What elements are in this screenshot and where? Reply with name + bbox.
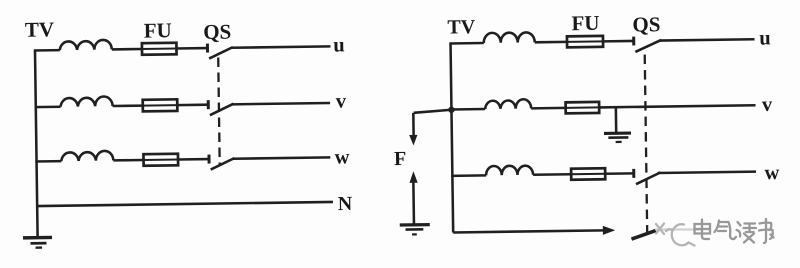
svg-text:TV: TV — [25, 17, 55, 41]
svg-text:v: v — [336, 90, 347, 112]
svg-text:QS: QS — [203, 20, 231, 44]
svg-text:u: u — [759, 27, 771, 49]
svg-text:QS: QS — [632, 12, 660, 36]
svg-text:F: F — [394, 148, 407, 170]
svg-text:N: N — [338, 193, 353, 215]
svg-text:FU: FU — [571, 11, 599, 35]
svg-text:FU: FU — [144, 18, 172, 42]
svg-text:u: u — [333, 34, 345, 56]
svg-text:w: w — [764, 162, 779, 184]
svg-text:v: v — [762, 94, 773, 116]
svg-text:w: w — [335, 146, 350, 168]
svg-text:TV: TV — [447, 16, 476, 38]
